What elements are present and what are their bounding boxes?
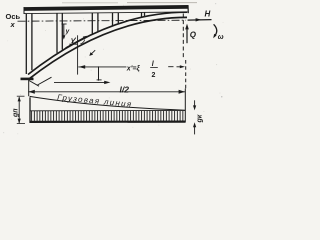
left dimension g_p [18, 97, 20, 123]
load strip left edge [29, 97, 31, 123]
trailing dash of x' leader [168, 66, 173, 68]
svg-text:gп: gп [13, 108, 20, 118]
y ordinate arrow [63, 24, 65, 37]
load strip top edge [30, 109, 185, 111]
hanger 1 (double line) [25, 14, 27, 75]
hanger 3 (double line) [91, 13, 93, 34]
springing hatch strokes [29, 81, 39, 87]
deck right end curl [187, 5, 189, 13]
springing support dash [21, 78, 34, 81]
load line (gruzovaya liniya) [30, 96, 186, 110]
load strip bottom edge [30, 120, 186, 123]
springing vertical line [28, 80, 30, 96]
faint scan artifact line top [62, 2, 118, 4]
extension tick [98, 66, 100, 80]
deck left end cap [23, 7, 25, 14]
crown section dashed line [182, 14, 184, 59]
extension line at x' [77, 35, 79, 74]
arch rib lower curve [28, 17, 187, 79]
hanger 4 (double line) [112, 13, 114, 26]
scan speckles [7, 5, 223, 134]
svg-text:2: 2 [152, 72, 156, 79]
dimension line x' with left arrow [78, 66, 126, 68]
shear force Q arrow (pointing up) [186, 28, 188, 44]
right extension line (strip right edge) [184, 89, 186, 123]
hanger 2 (double line) [56, 13, 58, 53]
axis dash-dot line [18, 20, 187, 21]
svg-text:y: y [65, 28, 70, 35]
moment omega curved arrow [214, 24, 217, 36]
tangent arrow cluster (ds element) [66, 37, 86, 48]
arch rib upper curve [28, 12, 187, 74]
right dimension g_k [194, 100, 196, 106]
deck beam (top chord) [24, 5, 189, 11]
svg-text:x′=ξ: x′=ξ [126, 65, 141, 72]
load strip hatching [32, 111, 183, 121]
svg-text:Q: Q [190, 31, 197, 40]
svg-text:ω: ω [218, 34, 224, 41]
svg-text:l/2: l/2 [120, 85, 130, 95]
dimension line l/2 [28, 91, 185, 93]
thrust H arrow (pointing right) [188, 19, 212, 22]
svg-text:H: H [205, 10, 211, 19]
deck bottom edge line [24, 12, 188, 14]
svg-text:x: x [10, 20, 16, 29]
hanger 5 (double line) [141, 13, 143, 18]
inner dimension line with right arrow [54, 81, 106, 83]
small arrow to arch axis point [91, 50, 95, 54]
svg-text:gк: gк [197, 114, 204, 123]
background paper [0, 0, 228, 145]
